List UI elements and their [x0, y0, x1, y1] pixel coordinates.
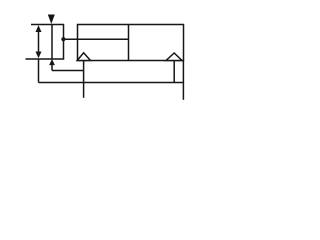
right port drop line	[173, 61, 175, 83]
valve center divider	[128, 25, 130, 61]
junction node dot	[61, 37, 65, 41]
down arrow A1 head	[48, 15, 55, 25]
top reference line (upper dimension tick)	[31, 24, 64, 26]
left drain line	[83, 61, 85, 98]
pilot line below dimension	[38, 59, 40, 83]
left vent triangle	[77, 53, 90, 61]
dimension arrow upper head	[36, 25, 42, 32]
internal port line / wire from node to box	[64, 38, 129, 40]
right edge drain extension	[182, 61, 184, 100]
bottom long wire	[39, 82, 185, 84]
actuator element left edge / arrow line	[51, 25, 53, 60]
up arrow A2 shaft	[51, 65, 53, 71]
stroke dimension double arrow shaft	[38, 29, 40, 55]
right vent triangle	[166, 53, 182, 61]
valve body box	[78, 25, 184, 61]
up arrow A2 head	[49, 59, 55, 65]
dimension arrow lower head	[36, 52, 42, 59]
actuator element right edge	[63, 25, 65, 60]
wire from up arrow to left drain	[52, 70, 84, 72]
bottom reference line (lower dimension tick)	[26, 58, 65, 60]
